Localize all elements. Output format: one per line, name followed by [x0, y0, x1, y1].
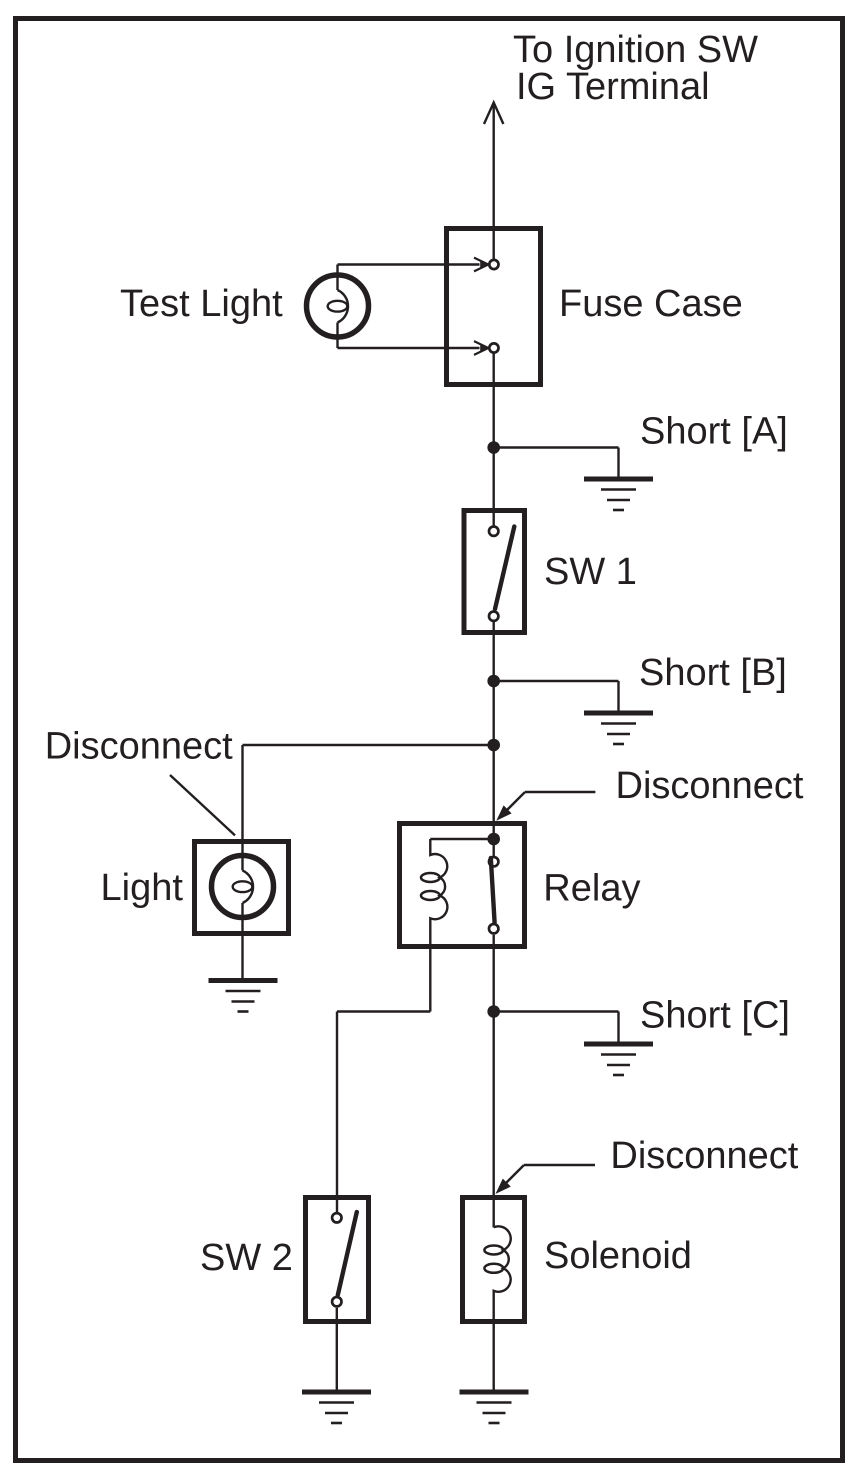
svg-text:Short [A]: Short [A]: [640, 411, 788, 453]
svg-text:IG Terminal: IG Terminal: [516, 66, 710, 108]
wire: test light top to fuse terminal: [338, 258, 489, 276]
switch SW1: [464, 511, 525, 633]
fuse case box: [447, 229, 541, 385]
svg-text:Fuse Case: Fuse Case: [559, 283, 743, 325]
svg-text:SW 1: SW 1: [544, 551, 637, 593]
svg-text:Disconnect: Disconnect: [45, 726, 233, 768]
ground (solenoid): [460, 1392, 529, 1423]
relay box: [400, 824, 525, 947]
wire: short B branch: [494, 681, 619, 713]
test light bulb: [307, 275, 369, 337]
wire: relay coil to SW2: [337, 1012, 430, 1214]
svg-text:Light: Light: [101, 867, 184, 909]
wire: relay contact to solenoid: [493, 935, 495, 1228]
wire: short A branch: [494, 448, 619, 480]
svg-text:Disconnect: Disconnect: [616, 765, 804, 807]
solenoid coil: [484, 1226, 510, 1392]
light bulb: [212, 856, 274, 918]
svg-text:Solenoid: Solenoid: [544, 1235, 692, 1277]
svg-text:Short [B]: Short [B]: [639, 652, 787, 694]
node A junction dot: [487, 441, 500, 454]
leader arrow (relay disconnect): [496, 792, 595, 821]
svg-text:Short [C]: Short [C]: [640, 994, 790, 1036]
wire: SW2 to ground: [336, 1308, 338, 1392]
light box: [195, 842, 289, 934]
svg-text:Disconnect: Disconnect: [610, 1135, 798, 1177]
leader line (left disconnect): [170, 775, 235, 835]
ground (short C): [584, 1044, 653, 1075]
switch SW2: [306, 1198, 369, 1322]
solenoid box: [463, 1198, 525, 1322]
svg-text:Relay: Relay: [543, 868, 640, 910]
wire: SW1 to node B to disconnect node: [493, 621, 495, 745]
ground (light): [209, 981, 278, 1012]
wire: short C branch: [494, 1012, 619, 1045]
wire: test light bottom to fuse terminal: [338, 337, 489, 355]
ground (short A): [584, 479, 653, 510]
fuse terminal bottom: [489, 343, 498, 352]
node C junction dot: [487, 1005, 500, 1018]
svg-text:Test Light: Test Light: [120, 283, 283, 325]
relay top junction dot: [487, 833, 500, 846]
ground (short B): [584, 713, 653, 744]
wire: node A to SW1: [493, 448, 495, 527]
relay contact: [489, 857, 498, 933]
ground (SW2): [302, 1392, 371, 1423]
svg-text:SW 2: SW 2: [200, 1237, 293, 1279]
node B junction dot: [487, 675, 500, 688]
leader arrow (solenoid disconnect): [496, 1165, 596, 1194]
wire: fuse to node A: [493, 354, 495, 448]
wire: relay dot to coil: [430, 838, 493, 840]
disconnect node junction dot: [487, 739, 500, 752]
arrow to ignition (up arrow): [484, 103, 503, 260]
svg-text:To Ignition SW: To Ignition SW: [513, 29, 758, 71]
wire: light to ground: [241, 918, 243, 981]
relay coil: [421, 839, 447, 1012]
fuse terminal top: [489, 260, 498, 269]
wire: disconnect node to relay: [493, 745, 495, 857]
wire: disconnect branch to light: [243, 745, 494, 856]
